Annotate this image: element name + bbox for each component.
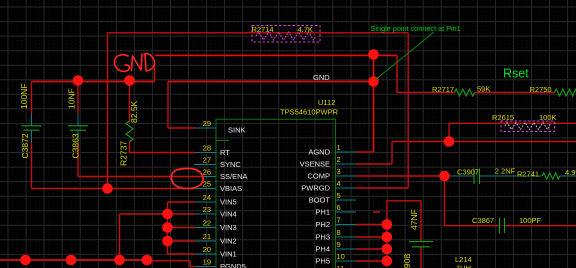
annotation leader line [375,32,434,80]
junction [162,236,173,247]
resistor R2750 [555,89,576,96]
wire GND rail right y81 [168,81,374,83]
svg-text:PWRGD: PWRGD [301,184,330,193]
wire GND rail y55 [155,54,397,56]
resistor R2717 59K [455,89,475,96]
svg-text:9: 9 [337,240,341,249]
svg-text:4: 4 [337,179,341,188]
wire C3908 bottom lead [420,247,422,268]
wire RT y152.5 [130,152,196,154]
annotation GND handwritten [114,54,154,72]
svg-text:R2717: R2717 [432,85,454,94]
wire Rset net middle [475,92,555,94]
wire VIN2 [168,240,196,242]
wire vertical x444.5 [444,176,446,226]
wire single point vertical x373 [373,55,375,153]
wire Rset net y92.5 [397,92,455,94]
wire VBIAS y188.5 [32,188,196,190]
svg-text:100NF: 100NF [19,83,29,109]
wire R2737 bottom [129,142,131,153]
wire PH3 [356,236,387,238]
svg-text:24: 24 [203,193,211,202]
svg-text:R2714: R2714 [252,25,274,34]
svg-text:2: 2 [337,155,341,164]
junction [368,49,379,60]
svg-text:PH4: PH4 [315,245,330,254]
junction [439,171,450,182]
wire PGND5 [147,260,190,262]
svg-text:6: 6 [337,203,341,212]
svg-text:8: 8 [337,228,341,237]
junction [102,183,113,194]
svg-text:COMP: COMP [308,172,331,181]
svg-text:C3908: C3908 [402,254,412,268]
wire C3908 top lead [420,201,422,241]
svg-text:29: 29 [203,119,211,128]
junction [368,76,379,87]
svg-text:SS/ENA: SS/ENA [220,172,248,181]
svg-text:7: 7 [337,216,341,225]
IC U1 body TPS54610PWPR [216,119,336,268]
resistor R2714 4.7K (selected) [252,26,320,43]
junction [382,219,393,230]
svg-text:C3863: C3863 [71,133,81,158]
svg-text:GND: GND [313,73,330,82]
wire C3863 bottom [77,143,79,177]
svg-text:22: 22 [203,219,211,228]
C3907 R2741 leads [449,175,475,177]
capacitor C3872 leads [31,114,33,126]
wire VIN bus x167.5 [167,202,169,254]
svg-text:AGND: AGND [308,148,330,157]
wire net y141.5 [392,141,576,143]
wire PH2 [356,224,387,226]
wire VIN4 y214 [120,213,196,215]
svg-text:4.99K: 4.99K [565,168,576,177]
wire C3867 net right [505,225,576,227]
wire VIN5 [168,201,196,203]
junction [124,75,135,86]
svg-text:27: 27 [203,156,211,165]
svg-text:C3907: C3907 [457,168,479,177]
svg-text:PH3: PH3 [315,233,330,242]
svg-text:19: 19 [203,258,211,267]
svg-text:C3867: C3867 [472,216,494,225]
svg-text:23: 23 [203,205,211,214]
svg-text:R2750: R2750 [530,85,552,94]
wire boot cap top y200.8 [387,200,421,202]
wire vertical x449 [448,123,450,141]
wire vertical x397 [396,55,398,92]
svg-text:100K: 100K [539,113,557,122]
svg-text:4.7K: 4.7K [298,25,313,34]
svg-text:VIN5: VIN5 [220,198,237,207]
capacitor C3867 plates [499,218,501,233]
svg-text:3: 3 [337,167,341,176]
wire VIN3 [168,227,196,229]
wire bottom rail y260 [0,259,147,261]
svg-text:10: 10 [337,252,345,261]
svg-text:1UH: 1UH [456,264,471,268]
wire PH4 [356,248,387,250]
svg-text:PH2: PH2 [315,220,330,229]
wire PWRGD pin4 [356,187,408,189]
wire vertical bus x107 [107,33,109,189]
op IC pin leads left [194,128,356,267]
wire GND rail left y81 [32,81,155,83]
svg-text:BOOT: BOOT [309,196,331,205]
svg-text:2.2NF: 2.2NF [495,167,516,176]
wire C3872 top [31,82,33,114]
svg-text:5: 5 [337,191,341,200]
svg-text:Rset: Rset [503,67,529,81]
svg-text:VIN3: VIN3 [220,223,237,232]
resistor R2741 4.99K [542,173,560,179]
wire VSENSE pin2 [356,163,392,165]
svg-text:TPS54610PWPR: TPS54610PWPR [280,108,339,117]
ground symbol stub [154,65,156,82]
svg-text:59K: 59K [477,85,490,94]
svg-text:21: 21 [203,232,211,241]
svg-text:10NF: 10NF [67,88,77,109]
wire top horizontal y33 [108,32,409,34]
wire PH5 [356,260,387,262]
svg-text:PH5: PH5 [315,257,330,266]
junction [382,256,393,267]
svg-text:RT: RT [220,148,230,157]
svg-text:25: 25 [203,180,211,189]
svg-text:PGND5: PGND5 [220,262,246,268]
svg-text:VSENSE: VSENSE [300,160,330,169]
junction [114,255,125,266]
svg-text:26: 26 [203,168,211,177]
wire PH bus x387 [386,201,388,261]
wire PH1 stub [373,211,380,213]
wire R2737 top [129,81,131,122]
annotation ellipse around SS/ENA [171,168,203,188]
svg-text:R2737: R2737 [119,141,129,166]
svg-text:100PF: 100PF [519,216,542,225]
svg-text:VBIAS: VBIAS [220,184,242,193]
svg-text:Single point connect at Pin1: Single point connect at Pin1 [371,24,461,33]
capacitor C3872 plates [22,125,42,127]
svg-text:20: 20 [203,245,211,254]
svg-text:1: 1 [337,143,341,152]
wire vertical x168 to SINK [167,82,169,129]
wire vertical x392 [391,142,393,165]
svg-text:11: 11 [337,264,345,268]
wire AGND pin1 [356,151,374,153]
capacitor C3863 leads [77,114,79,126]
svg-text:U112: U112 [318,98,335,107]
capacitor C3863 plates [68,125,88,127]
svg-text:R2615: R2615 [492,113,514,122]
wire VIN riser x119.5 [119,214,121,260]
resistor R2615 100K (selected) [501,121,555,132]
junction [382,232,393,243]
junction [162,222,173,233]
svg-text:SINK: SINK [228,126,246,135]
junction [444,136,455,147]
wire vertical x408 to PWRGD [407,33,409,188]
svg-text:82.5K: 82.5K [129,100,139,123]
svg-text:28: 28 [203,144,211,153]
svg-text:SYNC: SYNC [220,160,241,169]
junction [20,255,31,266]
wire C3867 net y225.7 [445,225,500,227]
svg-text:PH1: PH1 [315,208,330,217]
junction [382,244,393,255]
svg-text:C3872: C3872 [20,133,30,158]
wire C3872 bottom [31,143,33,189]
wire SS/ENA y176.5 [78,176,204,178]
capacitor C3907 plates [473,169,475,185]
svg-text:VIN1: VIN1 [220,250,237,259]
wire C3863 top [77,81,79,114]
svg-text:R2741: R2741 [517,170,539,179]
wire R2615 net y123.3 [449,122,576,124]
junction [66,255,77,266]
capacitor C3908 47NF plates [409,241,433,243]
svg-text:VIN2: VIN2 [220,237,237,246]
junction [142,255,153,266]
wire SINK pin29 [168,127,195,129]
svg-text:47NF: 47NF [409,209,419,230]
wire COMP pin3 [356,175,445,177]
junction [73,75,84,86]
wire VIN1 [168,253,196,255]
svg-text:VIN4: VIN4 [220,210,237,219]
resistor R2737 82.5K [126,121,133,142]
junction [162,209,173,220]
